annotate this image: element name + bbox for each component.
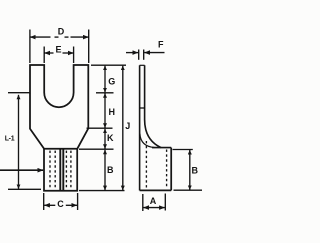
svg-text:C: C	[57, 199, 64, 209]
svg-text:D: D	[58, 26, 65, 36]
svg-text:B: B	[191, 166, 198, 176]
svg-text:F: F	[158, 39, 164, 49]
svg-text:J: J	[125, 121, 130, 131]
svg-text:L-1: L-1	[5, 135, 15, 142]
svg-text:A: A	[150, 196, 157, 206]
svg-text:K: K	[107, 133, 114, 143]
svg-text:H: H	[109, 107, 116, 117]
svg-text:B: B	[107, 165, 114, 175]
svg-text:G: G	[108, 77, 115, 87]
svg-text:E: E	[55, 45, 61, 55]
